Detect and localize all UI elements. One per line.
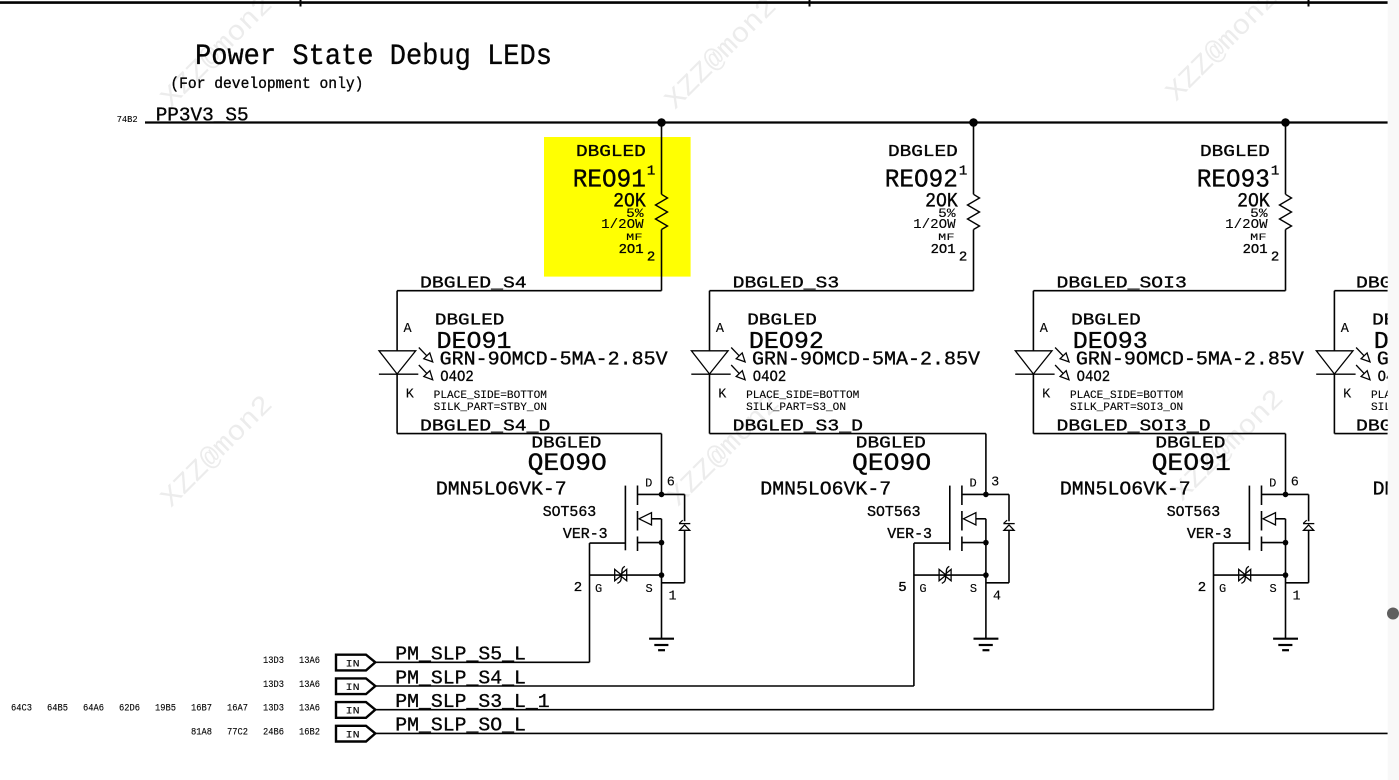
svg-text:81A8: 81A8 (191, 727, 212, 738)
svg-text:2: 2 (647, 250, 655, 266)
svg-text:74B2: 74B2 (117, 115, 138, 125)
svg-text:SILK_PART=S3_ON: SILK_PART=S3_ON (746, 402, 846, 414)
svg-text:64B5: 64B5 (47, 704, 68, 715)
svg-text:1: 1 (1293, 590, 1301, 605)
svg-text:PLACE_SIDE=BOTTOM: PLACE_SIDE=BOTTOM (434, 390, 547, 402)
svg-text:6: 6 (667, 476, 675, 491)
svg-text:G: G (595, 582, 602, 596)
svg-text:13A6: 13A6 (299, 704, 320, 715)
svg-text:PM_SLP_SO_L: PM_SLP_SO_L (395, 715, 526, 737)
svg-text:QEO9O: QEO9O (528, 449, 607, 478)
svg-text:2: 2 (1198, 580, 1206, 596)
svg-text:13A6: 13A6 (299, 680, 320, 691)
svg-text:SILK_PART=SOI3_ON: SILK_PART=SOI3_ON (1070, 402, 1183, 414)
svg-text:1: 1 (647, 164, 655, 180)
svg-text:1/2OW: 1/2OW (1225, 218, 1268, 233)
svg-text:2: 2 (1271, 250, 1279, 266)
svg-text:Power State Debug LEDs: Power State Debug LEDs (195, 40, 552, 74)
svg-text:G: G (1219, 582, 1226, 596)
svg-text:(For development only): (For development only) (170, 75, 363, 93)
svg-text:D: D (645, 477, 652, 491)
svg-text:O4O2: O4O2 (753, 368, 787, 386)
svg-text:GRN-9OMCD-5MA-2.85V: GRN-9OMCD-5MA-2.85V (1076, 348, 1305, 370)
svg-text:DBGLED: DBGLED (576, 143, 646, 162)
svg-text:PM_SLP_S4_L: PM_SLP_S4_L (395, 667, 526, 689)
svg-text:PP3V3_S5: PP3V3_S5 (156, 104, 249, 126)
svg-text:S: S (970, 582, 977, 596)
svg-text:K: K (406, 387, 415, 402)
svg-text:PLACE_SIDE=BOTTOM: PLACE_SIDE=BOTTOM (746, 390, 859, 402)
svg-text:DBGLED_S3_D: DBGLED_S3_D (733, 417, 863, 436)
svg-text:1: 1 (959, 164, 967, 180)
svg-text:DBGLED_SOI3: DBGLED_SOI3 (1057, 275, 1187, 294)
svg-text:O4O2: O4O2 (440, 368, 474, 386)
svg-text:6: 6 (1291, 476, 1299, 491)
svg-text:DBGLED_S4_D: DBGLED_S4_D (420, 417, 550, 436)
svg-text:A: A (404, 322, 413, 337)
svg-text:VER-3: VER-3 (1187, 526, 1232, 543)
svg-text:13D3: 13D3 (263, 656, 284, 667)
svg-text:A: A (716, 322, 725, 337)
svg-text:DMN5LO6VK-7: DMN5LO6VK-7 (760, 479, 891, 501)
svg-text:PLACE_SIDE=BOTTOM: PLACE_SIDE=BOTTOM (1070, 390, 1183, 402)
svg-text:13D3: 13D3 (263, 704, 284, 715)
svg-text:DBGLED_S4: DBGLED_S4 (420, 275, 527, 294)
svg-text:PM_SLP_S5_L: PM_SLP_S5_L (395, 644, 526, 666)
svg-text:DBGLED: DBGLED (888, 143, 958, 162)
svg-text:19B5: 19B5 (155, 704, 176, 715)
svg-text:13D3: 13D3 (263, 680, 284, 691)
svg-text:IN: IN (346, 658, 360, 669)
svg-text:16B2: 16B2 (299, 727, 320, 738)
svg-text:K: K (1343, 387, 1352, 402)
svg-text:IN: IN (346, 682, 360, 693)
svg-text:A: A (1341, 322, 1350, 337)
svg-text:K: K (718, 387, 727, 402)
svg-text:D: D (970, 477, 977, 491)
svg-text:24B6: 24B6 (263, 727, 284, 738)
svg-text:DBGLED: DBGLED (1200, 143, 1270, 162)
svg-text:5: 5 (898, 580, 906, 596)
svg-text:S: S (1270, 582, 1277, 596)
svg-text:K: K (1042, 387, 1051, 402)
svg-text:2O1: 2O1 (931, 242, 956, 258)
svg-text:2: 2 (959, 250, 967, 266)
svg-text:GRN-9OMCD-5MA-2.85V: GRN-9OMCD-5MA-2.85V (440, 348, 669, 370)
svg-text:DMN5LO6VK-7: DMN5LO6VK-7 (436, 479, 567, 501)
svg-text:2: 2 (574, 580, 582, 596)
svg-text:16A7: 16A7 (227, 704, 248, 715)
svg-text:O4O2: O4O2 (1077, 368, 1111, 386)
svg-text:16B7: 16B7 (191, 704, 212, 715)
svg-text:IN: IN (346, 706, 360, 717)
svg-text:PM_SLP_S3_L_1: PM_SLP_S3_L_1 (395, 691, 549, 713)
svg-text:4: 4 (993, 590, 1001, 605)
svg-text:VER-3: VER-3 (563, 526, 608, 543)
svg-text:DBGLED_SOI3_D: DBGLED_SOI3_D (1057, 417, 1211, 436)
svg-text:2O1: 2O1 (619, 242, 644, 258)
svg-text:SOT563: SOT563 (1167, 504, 1221, 521)
svg-text:1: 1 (1271, 164, 1279, 180)
svg-text:3: 3 (991, 476, 999, 491)
svg-text:S: S (646, 582, 653, 596)
svg-text:G: G (919, 582, 926, 596)
svg-text:D: D (1269, 477, 1276, 491)
svg-text:2O1: 2O1 (1243, 242, 1268, 258)
svg-text:SILK_PART=STBY_ON: SILK_PART=STBY_ON (434, 402, 547, 414)
svg-text:62D6: 62D6 (119, 704, 140, 715)
svg-text:VER-3: VER-3 (887, 526, 932, 543)
svg-text:DBGLED_S3: DBGLED_S3 (733, 275, 840, 294)
svg-text:64C3: 64C3 (11, 704, 32, 715)
svg-text:1/2OW: 1/2OW (913, 218, 956, 233)
svg-text:A: A (1040, 322, 1049, 337)
svg-text:1: 1 (669, 590, 677, 605)
svg-text:IN: IN (346, 729, 360, 740)
svg-text:1/2OW: 1/2OW (601, 218, 644, 233)
svg-text:QEO91: QEO91 (1152, 449, 1231, 478)
svg-text:64A6: 64A6 (83, 704, 104, 715)
svg-text:13A6: 13A6 (299, 656, 320, 667)
svg-text:GRN-9OMCD-5MA-2.85V: GRN-9OMCD-5MA-2.85V (752, 348, 981, 370)
svg-text:DMN5LO6VK-7: DMN5LO6VK-7 (1060, 479, 1191, 501)
svg-text:SOT563: SOT563 (867, 504, 921, 521)
svg-text:QEO9O: QEO9O (852, 449, 931, 478)
svg-text:SOT563: SOT563 (543, 504, 597, 521)
svg-text:77C2: 77C2 (227, 727, 248, 738)
